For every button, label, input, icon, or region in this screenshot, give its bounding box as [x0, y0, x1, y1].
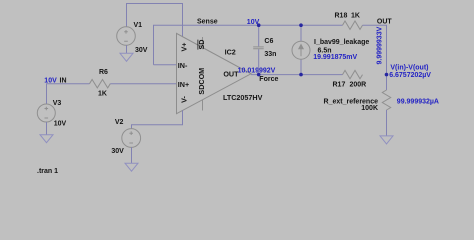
wire IN net [47, 84, 90, 104]
svg-text:R17: R17 [333, 82, 346, 89]
svg-text:10V: 10V [44, 77, 57, 84]
svg-text:SDCOM: SDCOM [197, 68, 206, 95]
pin SD stub [202, 37, 204, 48]
voltage source V3 [37, 104, 55, 122]
svg-text:OUT: OUT [377, 18, 393, 25]
svg-text:19.991875mV: 19.991875mV [313, 54, 357, 61]
svg-text:Force: Force [259, 76, 278, 83]
current source I_bav99_leakage [300, 25, 302, 74]
pin SDCOM stub [202, 100, 204, 111]
svg-text:30V: 30V [111, 148, 124, 155]
svg-text:R6: R6 [99, 69, 108, 76]
resistor R17 [343, 70, 363, 78]
wire V1 bottom [126, 45, 128, 53]
svg-text:99.999932µA: 99.999932µA [397, 99, 439, 106]
voltage source V1 [117, 27, 136, 46]
svg-text:.tran 1: .tran 1 [37, 168, 58, 175]
svg-text:V2: V2 [115, 119, 124, 126]
svg-text:30V: 30V [135, 47, 148, 54]
ground under V3 [40, 135, 53, 143]
wire V1 top to op-amp V+ [127, 4, 183, 37]
wire R6 to IN+ [110, 83, 176, 85]
svg-text:C6: C6 [264, 38, 273, 45]
junction I1 bottom [299, 73, 303, 77]
wire Sense net [154, 25, 343, 64]
wire R18 to OUT corner [363, 25, 387, 74]
svg-text:100K: 100K [361, 105, 378, 112]
svg-text:9.9999933V: 9.9999933V [377, 26, 384, 64]
svg-text:V-: V- [180, 96, 189, 103]
svg-text:6.6757202µV: 6.6757202µV [389, 72, 431, 79]
resistor R_ext_reference [382, 90, 390, 110]
resistor R6 [90, 80, 111, 88]
svg-text:10.019992V: 10.019992V [238, 67, 276, 74]
svg-text:I_bav99_leakage: I_bav99_leakage [314, 39, 369, 46]
svg-text:V+: V+ [180, 43, 189, 52]
pin label SD overline [197, 40, 199, 50]
wire OUT vertical to R_ext [386, 75, 388, 90]
junction C6 top [257, 23, 261, 27]
capacitor C6 [258, 25, 260, 74]
svg-text:1K: 1K [351, 13, 360, 20]
svg-text:IN-: IN- [178, 61, 188, 70]
svg-text:V1: V1 [134, 22, 143, 29]
wire V2 bottom [131, 147, 133, 163]
junction OUT R17 [385, 73, 389, 77]
ground under V1 [120, 53, 133, 61]
svg-text:IN: IN [60, 77, 67, 84]
svg-text:V(in)-V(out): V(in)-V(out) [390, 64, 428, 71]
junction I1 top [299, 23, 303, 27]
voltage source V2 [122, 129, 141, 148]
svg-text:1K: 1K [98, 90, 107, 97]
wire V3 bottom [46, 122, 48, 135]
svg-text:33n: 33n [264, 51, 276, 58]
wire R_ext to ground [386, 110, 388, 136]
svg-text:LTC2057HV: LTC2057HV [223, 93, 263, 102]
svg-text:SD: SD [197, 40, 206, 50]
svg-text:200R: 200R [350, 82, 367, 89]
ground right [380, 136, 393, 144]
svg-text:10V: 10V [54, 121, 67, 128]
svg-text:R18: R18 [335, 13, 348, 20]
wire Force net [251, 74, 343, 76]
junction C6 bottom [257, 73, 261, 77]
svg-text:V3: V3 [53, 100, 62, 107]
ground under V2 [125, 163, 138, 171]
op-amp IC2 triangle [177, 33, 252, 113]
resistor R18 [343, 21, 363, 29]
svg-text:IN+: IN+ [178, 80, 189, 89]
wire IN- [154, 64, 177, 66]
wire V- to V2 [132, 110, 183, 128]
svg-text:IC2: IC2 [225, 47, 236, 56]
svg-text:Sense: Sense [197, 19, 218, 26]
